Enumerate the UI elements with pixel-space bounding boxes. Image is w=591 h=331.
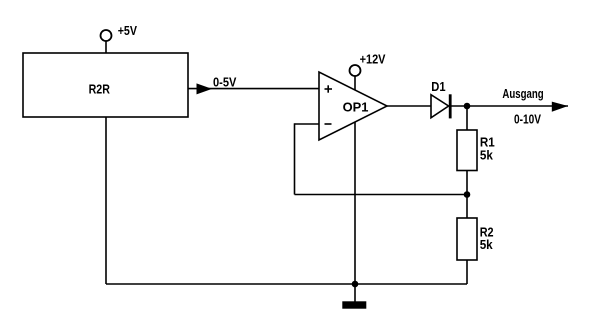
svg-text:OP1: OP1 xyxy=(343,100,369,114)
svg-text:Ausgang: Ausgang xyxy=(502,87,543,101)
svg-text:0-10V: 0-10V xyxy=(514,113,542,127)
svg-text:D1: D1 xyxy=(431,80,445,94)
svg-text:0-5V: 0-5V xyxy=(213,76,237,90)
svg-text:R1: R1 xyxy=(480,135,495,149)
svg-text:R2R: R2R xyxy=(89,82,110,96)
svg-text:+12V: +12V xyxy=(360,53,386,67)
svg-text:5k: 5k xyxy=(480,238,493,252)
svg-text:5k: 5k xyxy=(480,149,493,163)
svg-text:+5V: +5V xyxy=(118,24,138,38)
